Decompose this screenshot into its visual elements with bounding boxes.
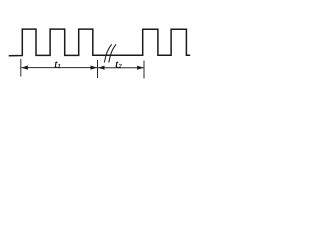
node tick right: [143, 61, 145, 79]
arrow left of t2 (points left at middle tick): [98, 66, 105, 70]
wire pulse-train waveform: [9, 29, 191, 56]
arrow right of t1 (points right at middle tick): [91, 66, 98, 70]
break symbol (double slash): [104, 44, 111, 62]
node tick left: [20, 59, 22, 77]
arrow right of t2 (points right at right tick): [137, 66, 144, 70]
wire dimension line t1: [21, 67, 97, 69]
node tick middle: [97, 60, 99, 78]
wire dimension line t2: [98, 67, 144, 69]
arrow left (points left at left tick): [21, 66, 28, 70]
